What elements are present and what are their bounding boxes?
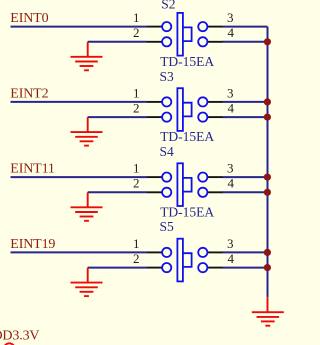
wire S pin 4 to bus	[222, 41, 268, 43]
power port VDD3.3V	[0, 329, 39, 345]
net label EINT0	[10, 11, 48, 26]
svg-text:EINT2: EINT2	[10, 86, 48, 101]
svg-text:S3: S3	[160, 69, 175, 84]
switch S3	[133, 69, 235, 144]
svg-text:1: 1	[133, 161, 140, 176]
pin 2 contact circle	[162, 37, 171, 46]
pin 4	[208, 41, 223, 43]
svg-text:1: 1	[133, 236, 140, 251]
switch button	[183, 253, 192, 267]
switch body	[177, 239, 183, 282]
pin 3 contact circle	[198, 97, 207, 106]
svg-text:1: 1	[133, 85, 140, 100]
switch S2	[133, 0, 235, 69]
svg-text:4: 4	[228, 101, 235, 116]
svg-text:EINT19: EINT19	[10, 237, 55, 252]
pin 4 contact circle	[198, 113, 207, 122]
pin 2 contact circle	[162, 263, 171, 272]
svg-text:3: 3	[227, 161, 234, 176]
junction dot on bus	[264, 249, 271, 256]
switch button	[183, 103, 192, 117]
pin 1 contact circle	[162, 22, 171, 31]
ground at bus bottom	[252, 297, 284, 326]
net label EINT19	[10, 237, 55, 252]
wire ground to S pin 2	[88, 267, 147, 269]
pin 4 contact circle	[198, 263, 207, 272]
pin 1 contact circle	[162, 248, 171, 257]
svg-text:TD-15EA: TD-15EA	[160, 129, 214, 144]
switch body	[177, 88, 183, 131]
svg-text:3: 3	[227, 236, 234, 251]
pin 2 contact circle	[162, 188, 171, 197]
wire EINT19 to S pin 1	[11, 251, 148, 253]
switch body	[177, 163, 183, 206]
net label EINT11	[10, 162, 55, 177]
pin 3 contact circle	[198, 248, 207, 257]
pin 1	[147, 26, 162, 28]
svg-text:1: 1	[133, 10, 140, 25]
pin 2 contact circle	[162, 113, 171, 122]
ground	[71, 42, 103, 71]
switch body	[177, 13, 183, 56]
switch S5	[133, 219, 235, 281]
ground	[71, 268, 103, 297]
svg-text:S5: S5	[160, 219, 175, 234]
svg-text:S4: S4	[160, 144, 175, 159]
svg-text:2: 2	[133, 25, 140, 40]
junction dot on bus	[264, 174, 271, 181]
pin 4	[208, 267, 223, 269]
wire S pin 3 to bus	[222, 26, 268, 28]
wire ground to S pin 2	[88, 116, 147, 118]
pin 3	[208, 176, 223, 178]
svg-text:2: 2	[133, 176, 140, 191]
pin 3	[208, 251, 223, 253]
pin 2	[147, 116, 162, 118]
svg-text:4: 4	[228, 251, 235, 266]
svg-text:4: 4	[228, 25, 235, 40]
svg-text:EINT11: EINT11	[10, 162, 55, 177]
pin 2	[147, 267, 162, 269]
ground	[71, 192, 103, 221]
wire EINT2 to S pin 1	[11, 101, 148, 103]
junction dot on bus	[264, 98, 271, 105]
svg-text:TD-15EA: TD-15EA	[160, 54, 214, 69]
pin 4	[208, 116, 223, 118]
wire S pin 3 to bus	[222, 176, 268, 178]
pin 1	[147, 251, 162, 253]
svg-text:2: 2	[133, 101, 140, 116]
svg-text:EINT0: EINT0	[10, 11, 48, 26]
wire ground to S pin 2	[88, 191, 147, 193]
pin 4 contact circle	[198, 37, 207, 46]
net label EINT2	[10, 86, 48, 101]
pin 1	[147, 101, 162, 103]
junction dot on bus	[264, 264, 271, 271]
wire EINT11 to S pin 1	[11, 176, 148, 178]
switch button	[183, 178, 192, 192]
junction dot on bus	[264, 38, 271, 45]
svg-text:VDD3.3V: VDD3.3V	[0, 329, 39, 344]
pin 2	[147, 41, 162, 43]
switch S4	[133, 144, 235, 220]
junction dot on bus	[264, 189, 271, 196]
pin 3 contact circle	[198, 22, 207, 31]
wire ground to S pin 2	[88, 41, 147, 43]
wire S pin 3 to bus	[222, 251, 268, 253]
svg-text:TD-15EA: TD-15EA	[160, 205, 214, 220]
pin 4	[208, 191, 223, 193]
wire right bus	[267, 27, 269, 298]
svg-text:4: 4	[228, 176, 235, 191]
pin 1	[147, 176, 162, 178]
switch button	[183, 27, 192, 41]
pin 4 contact circle	[198, 188, 207, 197]
svg-text:2: 2	[133, 251, 140, 266]
pin 3	[208, 101, 223, 103]
svg-text:3: 3	[227, 85, 234, 100]
wire S pin 4 to bus	[222, 116, 268, 118]
pin 3 contact circle	[198, 173, 207, 182]
svg-text:S2: S2	[161, 0, 175, 11]
ground	[71, 117, 103, 146]
svg-text:3: 3	[227, 10, 234, 25]
pin 2	[147, 191, 162, 193]
wire S pin 3 to bus	[222, 101, 268, 103]
wire EINT0 to S pin 1	[11, 26, 148, 28]
pin 1 contact circle	[162, 97, 171, 106]
wire S pin 4 to bus	[222, 267, 268, 269]
junction dot on bus	[264, 114, 271, 121]
wire S pin 4 to bus	[222, 191, 268, 193]
pin 3	[208, 26, 223, 28]
pin 1 contact circle	[162, 173, 171, 182]
